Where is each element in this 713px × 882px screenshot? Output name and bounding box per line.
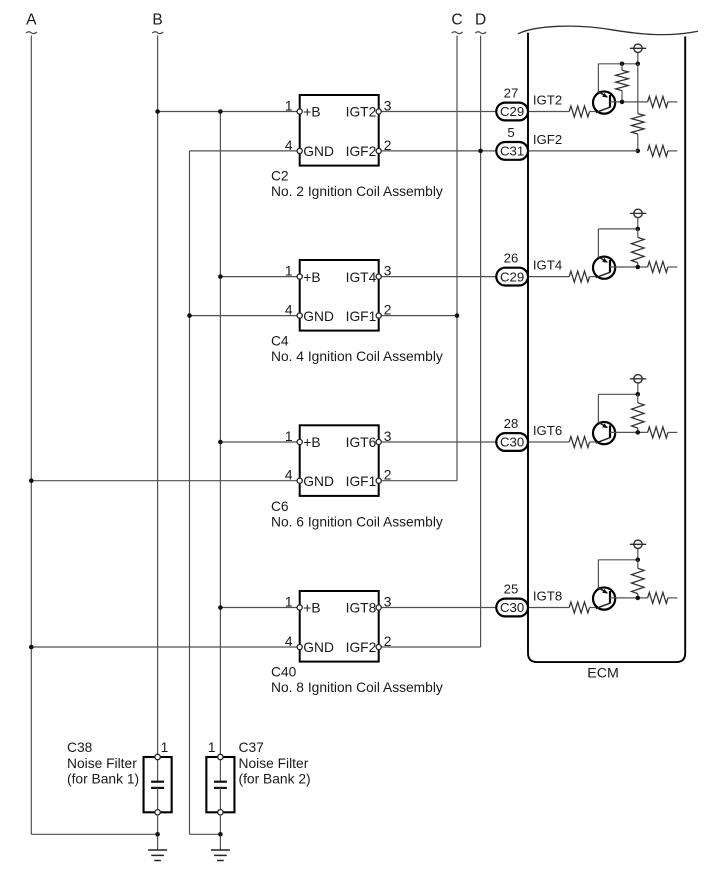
svg-text:IGT2: IGT2 [533, 93, 562, 108]
svg-text:Noise Filter: Noise Filter [67, 756, 137, 771]
svg-text:1: 1 [285, 595, 293, 610]
svg-text:+B: +B [303, 105, 320, 120]
svg-text:1: 1 [285, 264, 293, 279]
svg-text:4: 4 [285, 634, 293, 649]
svg-text:27: 27 [504, 86, 519, 101]
svg-text:IGF1: IGF1 [346, 309, 377, 324]
svg-text:4: 4 [285, 138, 293, 153]
svg-text:IGF2: IGF2 [346, 640, 377, 655]
svg-text:C2: C2 [271, 169, 289, 184]
svg-text:(for Bank 1): (for Bank 1) [67, 772, 139, 787]
svg-text:C29: C29 [500, 104, 524, 119]
svg-text:C6: C6 [271, 499, 289, 514]
svg-text:2: 2 [384, 634, 392, 649]
svg-text:5: 5 [507, 125, 514, 140]
svg-text:28: 28 [504, 416, 519, 431]
svg-text:3: 3 [384, 264, 392, 279]
svg-text:C38: C38 [67, 740, 93, 755]
svg-text:GND: GND [303, 640, 334, 655]
svg-text:C30: C30 [500, 600, 524, 615]
svg-text:1: 1 [208, 740, 216, 755]
svg-text:D: D [475, 12, 486, 29]
svg-text:IGT2: IGT2 [346, 105, 377, 120]
svg-text:(for Bank 2): (for Bank 2) [239, 772, 311, 787]
svg-text:GND: GND [303, 309, 334, 324]
svg-text:IGT6: IGT6 [346, 435, 377, 450]
svg-text:C37: C37 [239, 740, 264, 755]
svg-text:2: 2 [384, 468, 392, 483]
svg-text:IGF2: IGF2 [533, 132, 562, 147]
svg-text:C31: C31 [500, 144, 524, 159]
svg-text:C: C [451, 12, 462, 29]
svg-text:3: 3 [384, 99, 392, 114]
svg-text:IGF2: IGF2 [346, 144, 377, 159]
svg-text:C30: C30 [500, 435, 524, 450]
svg-text:A: A [26, 12, 37, 29]
svg-text:4: 4 [285, 303, 293, 318]
svg-text:C29: C29 [500, 269, 524, 284]
svg-text:Noise Filter: Noise Filter [239, 756, 309, 771]
svg-text:IGT8: IGT8 [533, 589, 562, 604]
svg-text:No. 2 Ignition Coil Assembly: No. 2 Ignition Coil Assembly [271, 184, 443, 199]
svg-text:2: 2 [384, 138, 392, 153]
svg-text:C4: C4 [271, 334, 289, 349]
svg-text:IGT6: IGT6 [533, 423, 562, 438]
svg-text:GND: GND [303, 144, 334, 159]
svg-text:+B: +B [303, 601, 320, 616]
svg-text:IGT4: IGT4 [346, 270, 377, 285]
svg-text:GND: GND [303, 474, 334, 489]
svg-text:3: 3 [384, 429, 392, 444]
svg-text:IGT8: IGT8 [346, 601, 377, 616]
svg-text:C40: C40 [271, 665, 297, 680]
svg-text:IGF1: IGF1 [346, 474, 377, 489]
svg-text:3: 3 [384, 595, 392, 610]
svg-text:No. 6 Ignition Coil Assembly: No. 6 Ignition Coil Assembly [271, 515, 443, 530]
svg-text:No. 4 Ignition Coil Assembly: No. 4 Ignition Coil Assembly [271, 349, 443, 364]
svg-text:26: 26 [504, 251, 519, 266]
svg-text:+B: +B [303, 270, 320, 285]
svg-text:No. 8 Ignition Coil Assembly: No. 8 Ignition Coil Assembly [271, 680, 443, 695]
svg-text:B: B [152, 12, 162, 29]
svg-text:ECM: ECM [587, 666, 619, 682]
svg-text:1: 1 [161, 740, 169, 755]
svg-text:1: 1 [285, 99, 293, 114]
svg-text:4: 4 [285, 468, 293, 483]
svg-text:+B: +B [303, 435, 320, 450]
svg-text:2: 2 [384, 303, 392, 318]
svg-text:1: 1 [285, 429, 293, 444]
svg-text:25: 25 [504, 582, 519, 597]
svg-text:IGT4: IGT4 [533, 258, 562, 273]
